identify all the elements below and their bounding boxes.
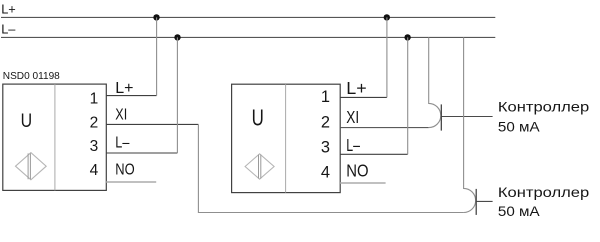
- svg-text:L–: L–: [346, 135, 360, 155]
- wire U1 pin1 stub: [106, 95, 156, 97]
- svg-text:1: 1: [321, 88, 330, 106]
- wire U1 pin3 riser to L-: [176, 37, 178, 153]
- junction dot sensor2 L+: [384, 14, 390, 20]
- net L+ rail: [1, 16, 495, 18]
- svg-text:4: 4: [321, 164, 330, 182]
- sensor U2 body: [232, 84, 341, 192]
- wire to controller 2: [476, 200, 492, 202]
- sensor U2 proximity diamond: [245, 154, 274, 179]
- wire L- branch with merge arc to controller 1: [429, 37, 441, 127]
- merge tick controller 2: [475, 189, 477, 215]
- wire U2 pin1 riser to L+: [386, 17, 388, 97]
- wire U2 pin2 XI run: [340, 127, 429, 129]
- svg-text:50 мА: 50 мА: [498, 203, 540, 219]
- junction dot sensor2 L-: [404, 34, 410, 40]
- wire U2 pin3 stub: [340, 153, 408, 155]
- junction dot sensor1 L-: [174, 34, 180, 40]
- wire L- branch with merge arc to controller 2: [464, 37, 476, 212]
- svg-text:U: U: [21, 110, 32, 132]
- svg-text:L+: L+: [1, 2, 16, 17]
- svg-text:L–: L–: [1, 22, 16, 37]
- sensor U1 diamond bars: [28, 153, 30, 179]
- wire U2 pin1 stub: [340, 96, 387, 98]
- svg-text:NO: NO: [115, 162, 134, 179]
- svg-text:NO: NO: [346, 160, 368, 180]
- sensor U1 proximity diamond: [16, 153, 47, 180]
- wire to controller 1: [441, 116, 492, 118]
- wire U1 pin2 run to lower merge: [198, 124, 463, 212]
- net L- rail: [1, 36, 495, 38]
- wire U2 pin3 riser to L-: [407, 37, 409, 154]
- svg-text:NSD0 01198: NSD0 01198: [3, 71, 60, 82]
- svg-text:2: 2: [90, 114, 99, 131]
- wire U1 pin2 stub XI: [106, 123, 198, 125]
- svg-text:4: 4: [90, 162, 99, 179]
- sensor U2 diamond bars: [259, 155, 261, 179]
- wire U2 pin4 NO stub: [340, 182, 385, 184]
- merge tick controller 1: [440, 104, 442, 130]
- sensor U2 divider: [285, 84, 287, 192]
- svg-text:L–: L–: [115, 135, 129, 152]
- svg-text:U: U: [252, 104, 264, 130]
- svg-text:XI: XI: [115, 107, 127, 124]
- sensor U1 divider: [54, 84, 56, 190]
- svg-text:50 мА: 50 мА: [498, 118, 540, 134]
- svg-text:Контроллер: Контроллер: [498, 184, 589, 200]
- junction dot sensor1 L+: [153, 14, 159, 20]
- svg-text:L+: L+: [115, 80, 133, 97]
- svg-text:L+: L+: [346, 78, 366, 98]
- wire U1 pin1 riser to L+: [156, 17, 158, 95]
- svg-text:2: 2: [321, 113, 330, 131]
- wire U1 pin4 NO stub: [106, 181, 156, 183]
- svg-text:Контроллер: Контроллер: [498, 99, 589, 115]
- wire U1 pin3 stub: [106, 152, 177, 154]
- svg-text:3: 3: [90, 138, 99, 155]
- sensor U1 body: [3, 84, 107, 190]
- svg-text:XI: XI: [346, 107, 359, 127]
- svg-text:3: 3: [321, 138, 330, 156]
- svg-text:1: 1: [90, 91, 99, 108]
